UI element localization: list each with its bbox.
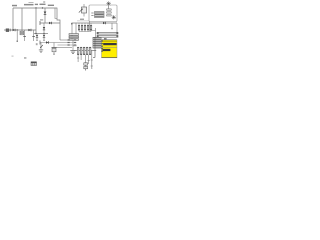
node M — [35, 33, 36, 34]
node Q — [71, 23, 73, 25]
node P — [39, 21, 41, 25]
pad c — [68, 42, 70, 43]
wire bus w2 — [40, 42, 76, 44]
wire bus w4 — [56, 47, 72, 49]
node end C6 — [85, 70, 86, 71]
resistor R8 — [69, 36, 79, 38]
capacitor C3 — [32, 30, 35, 41]
lamp H2 — [112, 15, 116, 19]
diode D4 — [43, 23, 45, 34]
diode D8 — [103, 22, 106, 24]
diode D1 — [13, 29, 16, 31]
capacitor C6 — [84, 55, 88, 70]
wire relay to bus — [90, 22, 96, 31]
wire drop x36 — [35, 8, 37, 34]
capacitor C2 — [23, 30, 26, 41]
wire bus vertical — [95, 28, 97, 38]
connector J1 — [6, 29, 10, 32]
wire feed B — [75, 23, 77, 34]
diode D3 — [28, 29, 31, 31]
capacitor C5 — [52, 43, 57, 55]
wire drop x13 — [12, 8, 14, 30]
wire RN2 rail — [74, 50, 94, 52]
node end x92 — [91, 68, 92, 69]
node J on rail — [35, 7, 36, 8]
wire stub x117 — [116, 23, 118, 33]
resistor R7 — [69, 34, 79, 36]
wire bus w1 — [60, 39, 76, 41]
label Ubat text row — [12, 2, 54, 7]
node K on rail — [42, 7, 43, 8]
wire desc x79 — [77, 55, 79, 62]
label faint left — [12, 56, 14, 57]
label RN1 — [80, 19, 84, 20]
wire bus w3 — [58, 44, 77, 46]
node R — [39, 41, 41, 45]
crystal X1 — [20, 31, 24, 35]
contact S2 — [107, 12, 112, 13]
pad b — [74, 39, 76, 40]
wire drop x22 — [21, 8, 23, 31]
pad e — [68, 44, 70, 45]
pin ticks K1 left — [91, 13, 93, 16]
connector J2 grid — [93, 37, 101, 48]
label near logo — [24, 57, 26, 58]
label RN2 — [74, 45, 77, 46]
wire stub x55 — [55, 8, 57, 19]
diode D7 — [49, 22, 52, 24]
contact S1 — [107, 9, 112, 10]
wire RN1 top leads — [79, 23, 91, 25]
node N — [43, 33, 44, 34]
wire feed A — [71, 23, 73, 40]
pad f — [74, 44, 76, 45]
wire stub above U1 — [104, 38, 107, 39]
trimmer RV1 — [79, 4, 87, 17]
wire RN1 bottom bus — [79, 30, 91, 32]
resistor R11 — [97, 35, 118, 37]
IC U1 highlighted — [102, 40, 118, 58]
resistor network RN2 — [77, 47, 91, 54]
pin caps RN2 — [77, 47, 91, 55]
diode D6 — [43, 35, 45, 41]
label above node P — [40, 19, 43, 20]
wire desc x89 — [88, 55, 90, 64]
capacitor C1 — [17, 30, 18, 42]
pin caps RN1 — [78, 25, 92, 30]
ground G2 — [70, 40, 75, 53]
wire mid-left rail — [4, 29, 36, 31]
logo frame stamp — [31, 62, 37, 66]
pin ticks U1 — [101, 41, 103, 52]
pad d — [74, 42, 76, 43]
resistor network RN1 — [78, 25, 92, 30]
diode D2 — [44, 8, 47, 23]
resistor R9 — [69, 39, 79, 41]
ground G1 — [39, 50, 43, 53]
relay coil K1 — [95, 12, 105, 18]
wire below J2 — [93, 48, 96, 58]
pad a — [68, 39, 70, 40]
transistor Q1 — [40, 43, 43, 51]
diode D9 — [46, 41, 49, 43]
wire top supply rail — [13, 8, 60, 40]
contact S3 — [107, 15, 112, 16]
wire stub x112 — [111, 23, 112, 29]
lamp H1 — [106, 1, 110, 8]
label near Q1 — [36, 43, 38, 45]
node L — [17, 29, 18, 30]
resistor R10 — [97, 32, 118, 34]
wire RN1 bracket — [77, 20, 89, 22]
wire desc x83 — [80, 55, 82, 60]
wire mid-center rail — [34, 33, 48, 35]
wire desc x92 — [91, 51, 93, 69]
wire horizontal net right — [72, 22, 118, 24]
relay K1 box — [89, 5, 117, 22]
diode D5 — [36, 35, 38, 41]
wire horizontal net left — [40, 22, 60, 24]
